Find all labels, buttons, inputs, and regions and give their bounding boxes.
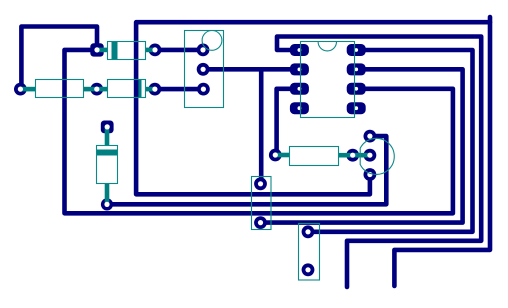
op-amp U1 pad R3 — [347, 83, 366, 95]
lead R2 right pad to transistor Q1 mid pad — [353, 153, 370, 158]
hole of pad B (diode D1 left, square) — [94, 47, 99, 52]
lead R1 to junction pad — [83, 87, 96, 92]
relay K1 outline — [185, 31, 224, 108]
pad B (diode D1 left, square) — [90, 43, 103, 56]
pad D (K1 pin1) — [197, 44, 210, 57]
lead junction pad to diode D2 — [97, 87, 107, 92]
hole of op-amp U1 pad L2 — [298, 68, 302, 72]
hole of pad C (diode D1 right) — [152, 47, 157, 52]
pad E (K1 pin2) — [197, 63, 210, 76]
resistor R1 outline — [36, 80, 84, 98]
pad J3 pin2 — [302, 263, 315, 276]
hole of pad H (cap bottom) — [104, 202, 109, 207]
wire lower row: lower diode right pad to K1 pin3 — [155, 87, 204, 92]
pad I (J2 pin2) — [254, 216, 267, 229]
hole of pad I (J2 pin2) — [258, 220, 263, 225]
hole of pad Q1 top — [367, 134, 372, 139]
hole of op-amp U1 pad R2 — [354, 68, 358, 72]
hole of op-amp U1 pad R4 — [354, 106, 358, 110]
hole of op-amp U1 pad R3 — [354, 87, 358, 91]
hole of op-amp U1 pad L4 — [298, 106, 302, 110]
pad K (cap top, square) — [101, 121, 114, 134]
wire net7a: transistor bottom pad down, left along H_a, up left column, top rail right — [136, 22, 490, 194]
hole of op-amp U1 pad L3 — [298, 87, 302, 91]
pad H (cap bottom) — [101, 198, 113, 210]
op-amp U1 notch — [318, 42, 336, 51]
wire net5: IC R1 right, down rail 3, left to pad J3a — [308, 50, 473, 232]
hole of pad J3 pin2 — [305, 267, 310, 272]
hole of pad Q1 bottom — [367, 172, 372, 177]
lead pad B to diode D1 — [97, 48, 107, 53]
pad K1 pin3 — [197, 83, 210, 96]
lead D2 to pad C2 — [146, 87, 155, 92]
diode D1 cathode band — [112, 42, 118, 60]
capacitor C1 outline — [97, 146, 118, 184]
wire net8: pad H right along H_b, up, left to transistor top pad — [107, 136, 386, 204]
pad A (R1 left) — [14, 83, 27, 96]
hole of pad Q1 mid — [367, 153, 372, 158]
hole of pad J3 pin1 — [305, 229, 310, 234]
hole of pad K1 pin3 — [201, 87, 206, 92]
lead pad A to resistor R1 — [20, 87, 35, 92]
resistor R2 outline — [290, 147, 339, 166]
wire net3: K1 pin2 to IC pad L2 — [203, 67, 299, 72]
op-amp U1 pad R4 — [347, 102, 366, 114]
wire net3 branch: junction down to pad F — [259, 69, 264, 184]
hole of pad D (K1 pin1) — [200, 47, 205, 52]
lead C1 down to pad H — [105, 184, 110, 205]
hole of pad A (R1 left) — [18, 87, 23, 92]
pad Q1 bottom — [364, 168, 377, 181]
op-amp U1 pad L3 — [290, 83, 309, 95]
hole of pad F (J2 pin1) — [258, 181, 263, 186]
op-amp U1 pad R1 — [347, 44, 366, 56]
op-amp U1 pad L1 — [290, 44, 309, 56]
diode D2 outline — [108, 80, 146, 98]
pad Q1 top — [364, 130, 377, 143]
hole of pad R2 right — [350, 153, 355, 158]
wire net4: IC L1 hook up, right, down rail 4, left, down to stub1 — [277, 37, 481, 288]
wire net1: pad A up, top-left rail, down to pad B — [21, 27, 97, 90]
op-amp U1 pad R2 — [347, 63, 366, 75]
hole of op-amp U1 pad R1 — [354, 48, 358, 52]
pad F (J2 pin1) — [254, 177, 267, 190]
hole of pad R1/D2 junction (lower row middle) — [94, 87, 99, 92]
lead pad G to resistor R2 — [275, 153, 289, 158]
lead pad K down to capacitor C1 — [105, 127, 110, 146]
hole of op-amp U1 pad L1 — [298, 48, 302, 52]
wire net7b: outer right rail down, left, down to stub2 — [394, 17, 490, 286]
diode D1 outline — [108, 42, 146, 60]
pad R1/D2 junction (lower row middle) — [90, 83, 103, 96]
pad R2 right — [346, 149, 359, 162]
op-amp U1 pad L2 — [290, 63, 309, 75]
pad Q1 mid — [364, 149, 377, 162]
hole of pad K (cap top, square) — [105, 124, 110, 129]
transistor Q1 outline (D-shape) — [360, 138, 394, 174]
lead D1 to pad C — [146, 48, 156, 53]
wire net1b: pad B left, down left column, bottom long rail H_c, up right rail 1 to pad R3 — [65, 50, 453, 213]
diode D2 cathode band — [136, 80, 142, 98]
pad C2 (lower diode right) — [149, 83, 162, 96]
connector J2 outline — [252, 177, 272, 230]
wire net10: IC L3 left, down to pad G — [277, 89, 300, 155]
hole of pad G (R2 left) — [273, 152, 278, 157]
op-amp U1 pad L4 — [290, 102, 309, 114]
relay K1 circle marker — [202, 31, 222, 51]
capacitor C1 polarity band — [97, 150, 118, 156]
op-amp U1 body outline — [301, 42, 355, 118]
pad G (R2 left) — [269, 149, 282, 162]
hole of pad C2 (lower diode right) — [152, 87, 157, 92]
hole of pad E (K1 pin2) — [201, 67, 206, 72]
wire net2: pad C to pad D — [155, 48, 203, 53]
connector J3 outline — [299, 224, 320, 281]
lead R2 to its right pad — [338, 153, 353, 158]
pad J3 pin1 — [302, 225, 315, 238]
pad C (diode D1 right) — [149, 44, 162, 57]
wire net6: IC R2 right, down rail 2, left to pad I — [261, 69, 463, 222]
